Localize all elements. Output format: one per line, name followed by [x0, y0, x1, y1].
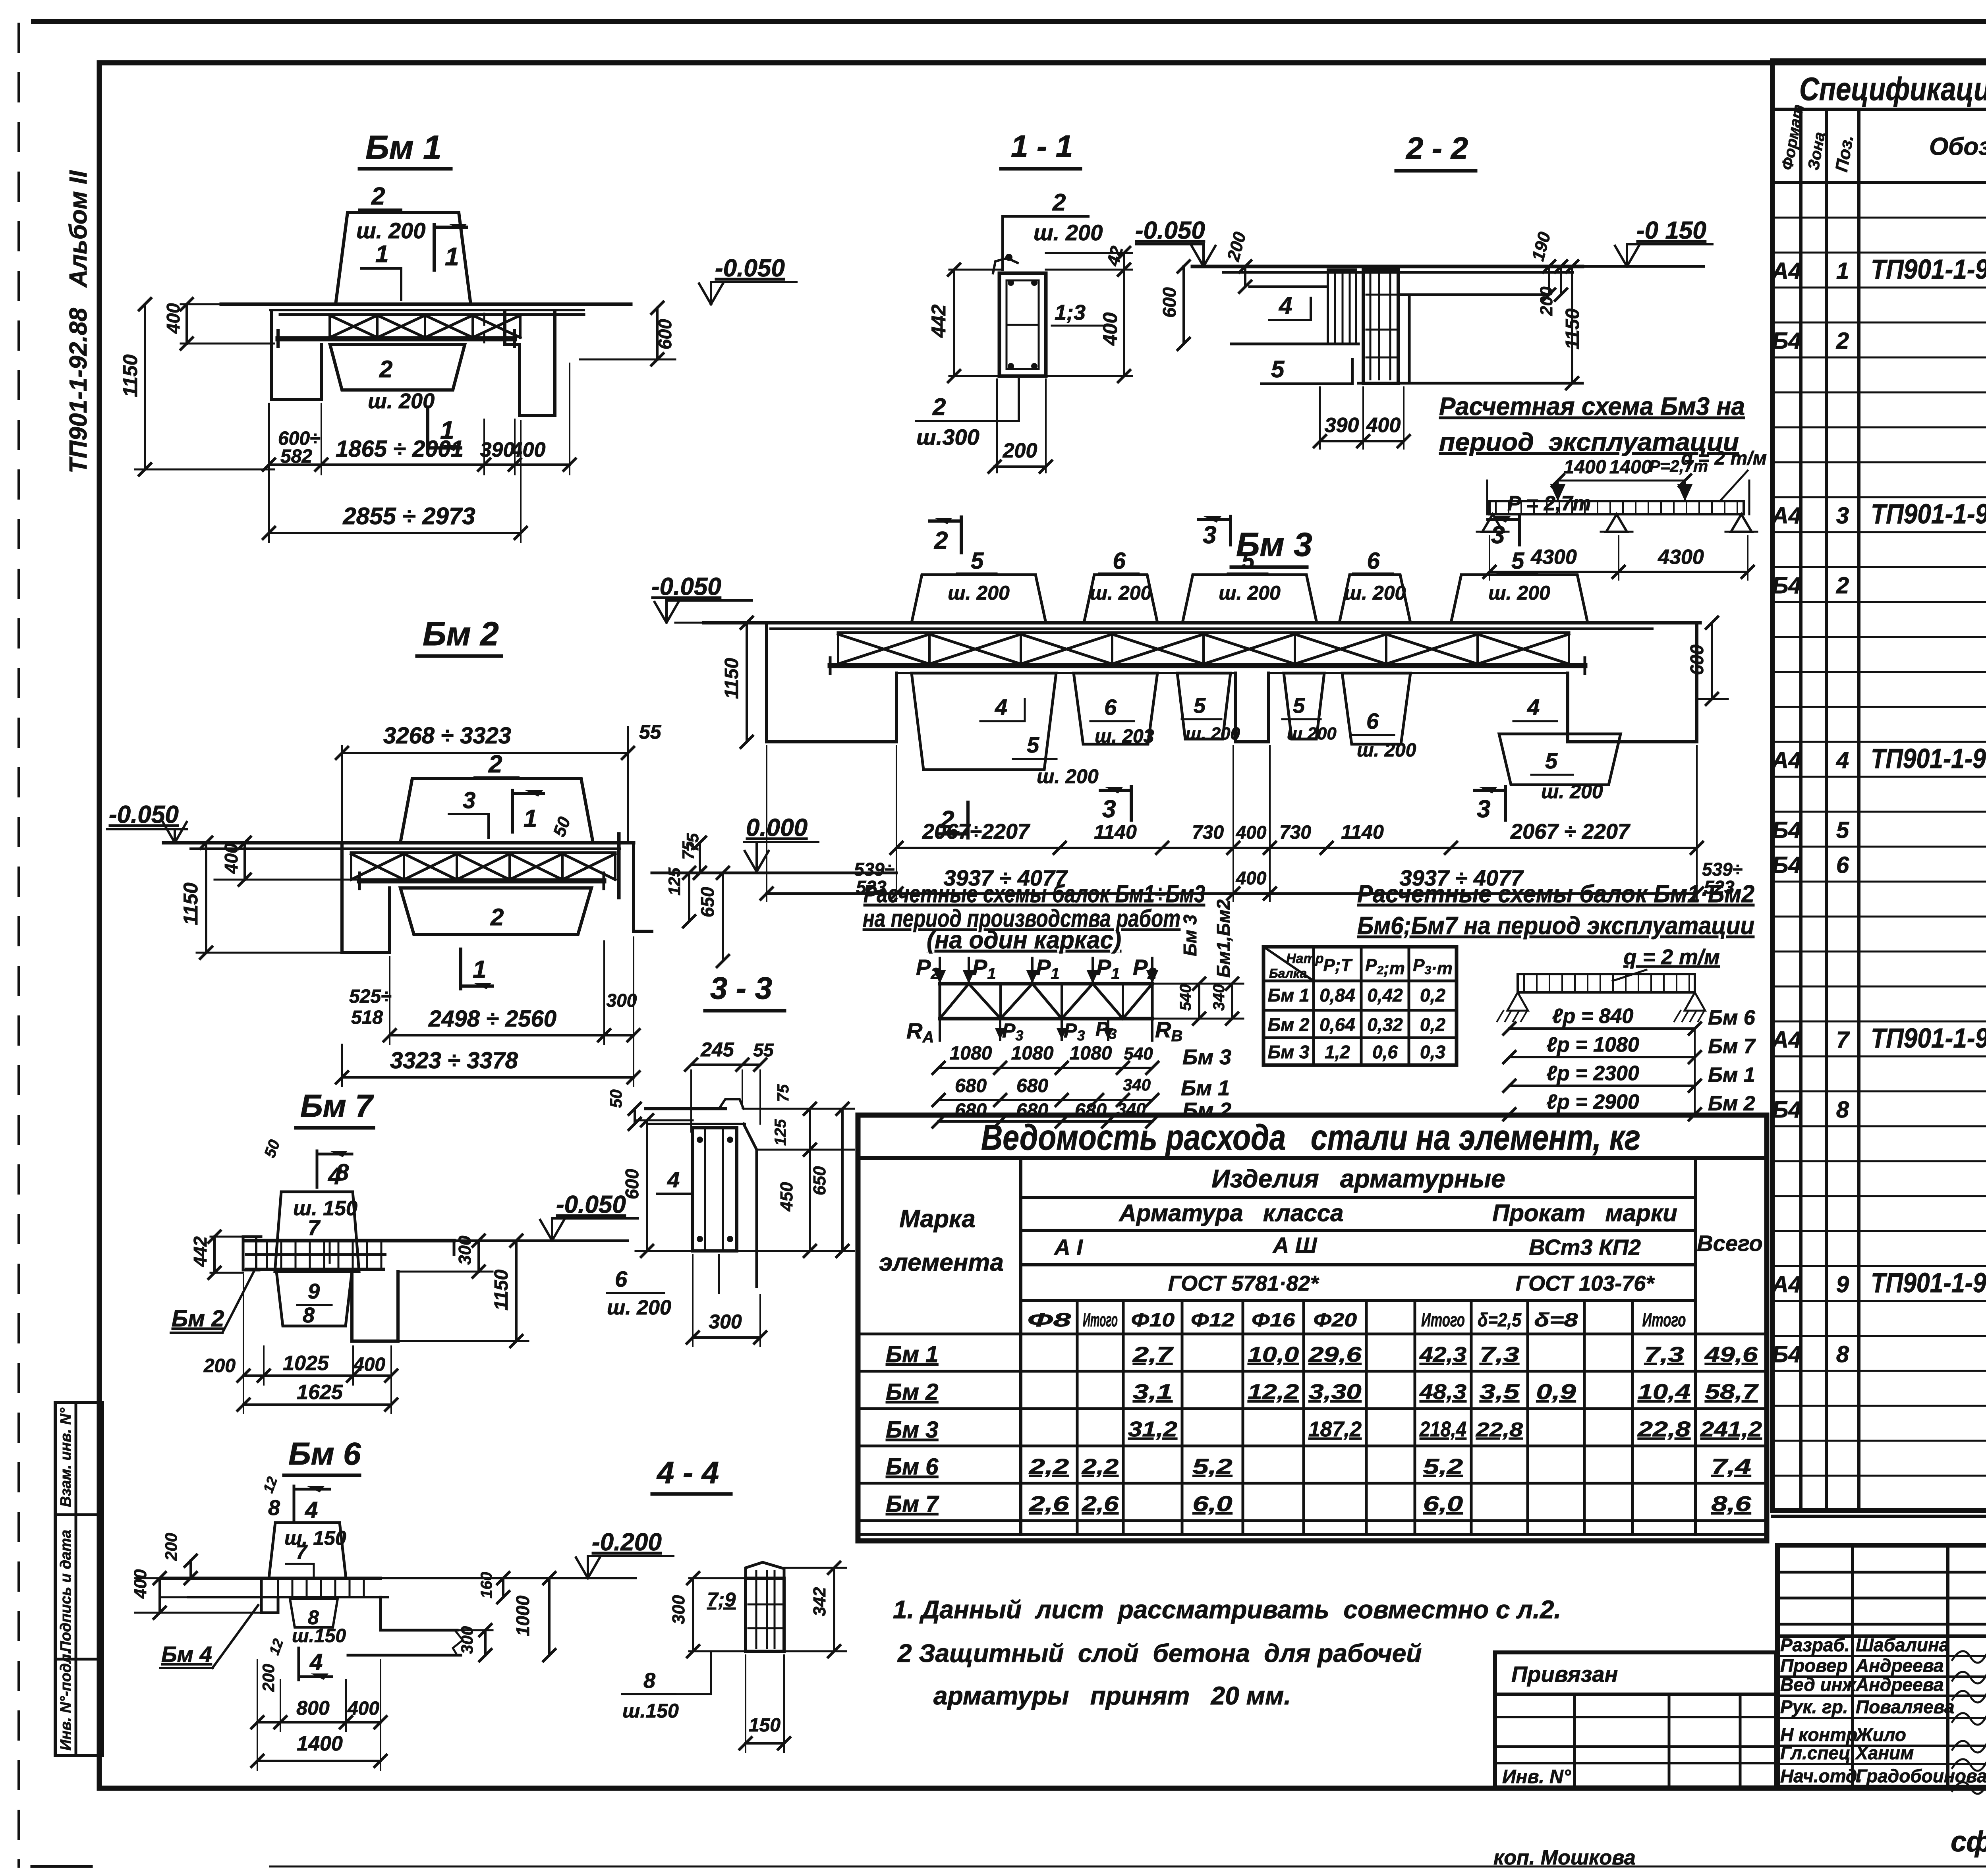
svg-text:4: 4: [667, 1167, 680, 1192]
svg-text:75: 75: [775, 1084, 792, 1102]
svg-text:29,6: 29,6: [1308, 1343, 1362, 1366]
svg-text:Б4: Б4: [1772, 328, 1801, 354]
svg-text:0,64: 0,64: [1319, 1014, 1355, 1035]
Bm3 truss diagonals: [838, 634, 929, 664]
svg-text:3,1: 3,1: [1133, 1380, 1173, 1404]
svg-text:4: 4: [1836, 747, 1849, 773]
svg-text:Бм 3: Бм 3: [1180, 915, 1200, 956]
svg-text:0,84: 0,84: [1319, 985, 1355, 1006]
svg-text:7,3: 7,3: [1644, 1343, 1684, 1366]
svg-text:ш. 200: ш. 200: [1344, 582, 1406, 604]
svg-text:9: 9: [1836, 1272, 1849, 1297]
Bm1 slab top line: [221, 303, 631, 306]
Cp dim rows: [1509, 1027, 1695, 1030]
svg-text:600: 600: [655, 319, 675, 349]
svg-text:ш. 200: ш. 200: [368, 389, 435, 413]
svg-text:7;9: 7;9: [707, 1588, 736, 1611]
svg-text:Инв. N°-подл.: Инв. N°-подл.: [58, 1650, 74, 1751]
3-3 top dims 245 55: [691, 1063, 760, 1066]
svg-text:Инв. N°: Инв. N°: [1502, 1766, 1571, 1787]
svg-text:42,3: 42,3: [1419, 1343, 1466, 1366]
Bm1 dim 400 left: [181, 303, 274, 305]
svg-text:3268 ÷ 3323: 3268 ÷ 3323: [383, 723, 511, 749]
svg-text:5: 5: [1242, 548, 1255, 574]
svg-text:400: 400: [1099, 312, 1121, 346]
Bm3 level -0.050: [665, 600, 668, 620]
Bm7 top mesh trapezoid: [275, 1192, 359, 1272]
svg-text:q = 2 т/м: q = 2 т/м: [1681, 448, 1767, 469]
svg-text:Расчетные схемы балок Бм1·Бм2: Расчетные схемы балок Бм1·Бм2: [1357, 880, 1754, 908]
svg-text:Бм1,Бм2: Бм1,Бм2: [1213, 899, 1234, 978]
4-4 dim 300 left: [692, 1578, 694, 1651]
svg-text:Итого: Итого: [1421, 1310, 1465, 1331]
steel consumption table Ведомость расхода стали: [858, 1115, 1767, 1541]
2-2 slab top line: [1192, 265, 1582, 268]
Bm3 truss bottom chord: [830, 663, 1585, 668]
svg-text:ш. 150: ш. 150: [293, 1197, 357, 1220]
svg-text:400: 400: [1236, 868, 1267, 888]
2-2 left slab bottom: [1250, 286, 1325, 288]
svg-text:5: 5: [1511, 548, 1524, 574]
svg-text:400: 400: [353, 1354, 385, 1375]
svg-text:Бм 1: Бм 1: [1708, 1063, 1755, 1087]
svg-text:ш. 200: ш. 200: [1357, 740, 1416, 761]
svg-text:5: 5: [1194, 694, 1206, 718]
3-3 bottom dim 300: [693, 1336, 760, 1339]
svg-text:-0.050: -0.050: [715, 255, 785, 282]
svg-text:2 - 2: 2 - 2: [1405, 131, 1468, 166]
svg-text:Бм 1: Бм 1: [1268, 985, 1310, 1006]
svg-text:А4: А4: [1771, 1027, 1801, 1053]
svg-text:-0.050: -0.050: [556, 1191, 626, 1218]
paper top edge line: [33, 19, 1986, 24]
Bm1 section flag 1 bottom: [426, 407, 429, 451]
Bm2 section flag 1 top: [511, 790, 514, 832]
1-1 dim 200: [996, 379, 998, 473]
svg-text:ш. 200: ш. 200: [1037, 765, 1099, 787]
svg-text:400: 400: [347, 1698, 379, 1719]
svg-text:Б4: Б4: [1772, 573, 1801, 598]
Bm1 top mesh trapezoid: [336, 212, 471, 304]
Bm1 bottom dims row2: [269, 532, 521, 534]
svg-text:q = 2 т/м: q = 2 т/м: [1623, 945, 1720, 969]
Bm6 bottom dims row2: [257, 1760, 381, 1762]
3-3 top slab lines: [646, 1107, 725, 1110]
svg-text:8,6: 8,6: [1712, 1492, 1752, 1516]
svg-text:Φ20: Φ20: [1313, 1310, 1357, 1331]
svg-text:300: 300: [607, 990, 637, 1011]
svg-text:ТП901-1-9 88-КЖИ1-С4: ТП901-1-9 88-КЖИ1-С4: [1871, 254, 1986, 285]
3-3 right slope: [744, 1124, 757, 1287]
svg-text:Провер: Провер: [1780, 1655, 1848, 1676]
P3 bottom loads: [999, 1019, 1001, 1040]
svg-text:3 - 3: 3 - 3: [710, 971, 772, 1006]
svg-text:1: 1: [524, 805, 537, 832]
svg-text:0,2: 0,2: [1420, 985, 1445, 1006]
svg-text:ш. 200: ш. 200: [1488, 582, 1550, 604]
svg-text:1: 1: [375, 241, 388, 267]
P-load truss scheme: [906, 899, 1243, 1127]
svg-text:ВСт3 КП2: ВСт3 КП2: [1529, 1235, 1641, 1260]
svg-text:ш. 200: ш. 200: [1219, 582, 1281, 604]
svg-text:Бм 2: Бм 2: [1182, 1098, 1231, 1122]
Bm6 right outline: [381, 1597, 457, 1630]
svg-text:3: 3: [1836, 503, 1849, 529]
svg-text:ТП901-1-9 88-КЖИ1-С5: ТП901-1-9 88-КЖИ1-С5: [1871, 498, 1986, 529]
svg-text:600: 600: [1687, 645, 1707, 675]
svg-text:49,6: 49,6: [1704, 1343, 1758, 1366]
svg-text:22,8: 22,8: [1637, 1417, 1690, 1441]
Bm6 stirrup ticks: [277, 1579, 279, 1596]
svg-text:2 Защитный слой бетона для: 2 Защитный слой бетона для рабочей: [897, 1639, 1422, 1668]
svg-text:540: 540: [1124, 1044, 1153, 1063]
svg-text:0,2: 0,2: [1420, 1014, 1445, 1035]
svg-text:Б4: Б4: [1772, 1341, 1801, 1367]
section 3-3: [607, 971, 854, 1346]
svg-text:241,2: 241,2: [1700, 1417, 1762, 1441]
svg-text:Бм 6: Бм 6: [886, 1454, 939, 1480]
svg-text:-0.050: -0.050: [651, 573, 721, 600]
Bm2 dim 1150 left: [205, 843, 207, 953]
Bm1 level -0.050: [710, 282, 712, 301]
svg-text:Φ12: Φ12: [1191, 1310, 1234, 1331]
Bm7 bottom dims row2: [243, 1403, 391, 1406]
svg-text:1150: 1150: [119, 354, 141, 397]
svg-text:ТП901-1-9 88-КЖИ1-С7: ТП901-1-9 88-КЖИ1-С7: [1871, 1023, 1986, 1054]
svg-text:1000: 1000: [512, 1595, 533, 1636]
svg-text:1 - 1: 1 - 1: [1011, 129, 1073, 164]
Bm2 bottom mesh trapezoid: [400, 888, 591, 934]
Bm2 truss top chord: [351, 851, 615, 854]
svg-text:1625: 1625: [297, 1381, 343, 1404]
2-2 right slab bottom: [1398, 293, 1545, 296]
svg-text:1140: 1140: [1094, 821, 1137, 843]
Bm7 right slab edge: [453, 1241, 456, 1255]
svg-text:600: 600: [1159, 287, 1180, 318]
svg-text:арматуры принят 20 мм.: арматуры принят 20 мм.: [933, 1681, 1291, 1710]
Bm6 top mesh trapezoid: [269, 1523, 346, 1578]
svg-text:342: 342: [810, 1587, 829, 1616]
svg-text:5: 5: [1271, 356, 1285, 382]
Bm3 bottom section flags: [966, 802, 970, 838]
svg-text:3,5: 3,5: [1480, 1380, 1520, 1404]
section 1-1: [916, 129, 1132, 473]
4-4 dim 150: [746, 1742, 784, 1745]
svg-text:450: 450: [777, 1182, 796, 1212]
left stamp strip boxes: [55, 1403, 102, 1756]
svg-text:2: 2: [1836, 573, 1849, 598]
Bm3 left small dims: [746, 623, 748, 742]
svg-text:518: 518: [351, 1007, 383, 1028]
svg-text:2: 2: [934, 527, 948, 554]
svg-text:Бм 1: Бм 1: [886, 1341, 938, 1367]
signature rows: [1777, 1655, 1986, 1657]
svg-text:Расчетная схема Бм3 на: Расчетная схема Бм3 на: [1439, 392, 1745, 421]
svg-text:48,3: 48,3: [1419, 1380, 1466, 1404]
svg-text:Бм 7: Бм 7: [1708, 1035, 1756, 1058]
P value table: [1263, 947, 1457, 1065]
svg-text:6: 6: [1836, 852, 1849, 878]
svg-text:-0.050: -0.050: [1135, 217, 1205, 244]
header grid: [1019, 1158, 1022, 1534]
svg-text:245: 245: [700, 1038, 734, 1061]
svg-text:6,0: 6,0: [1423, 1492, 1463, 1516]
svg-text:200: 200: [259, 1664, 278, 1692]
Bm3 top mesh trapezoids: [912, 575, 1046, 623]
truss dim row 680: [939, 1099, 1152, 1101]
svg-text:200: 200: [1003, 439, 1037, 462]
1-1 dims 42 and 400 right: [1046, 252, 1132, 254]
svg-text:1865 ÷ 2001: 1865 ÷ 2001: [336, 436, 464, 462]
3-3 main rect: [693, 1128, 737, 1251]
svg-text:125: 125: [772, 1119, 789, 1146]
svg-text:А4: А4: [1771, 503, 1801, 529]
svg-text:ℓр = 840: ℓр = 840: [1552, 1005, 1634, 1028]
Bm2 dim 400 left: [214, 842, 246, 844]
Bm2 truss diagonals: [351, 854, 404, 880]
svg-text:Вед инж: Вед инж: [1780, 1674, 1857, 1695]
svg-text:8: 8: [268, 1496, 280, 1520]
svg-text:ш. 150: ш. 150: [284, 1527, 346, 1549]
svg-text:Φ8: Φ8: [1027, 1310, 1071, 1331]
svg-text:0.000: 0.000: [746, 814, 808, 841]
2-2 dim 1150 right: [1571, 266, 1573, 383]
right rotated labels: [1152, 983, 1243, 985]
svg-text:(на один каркас): (на один каркас): [927, 926, 1121, 954]
svg-text:6: 6: [1113, 548, 1126, 574]
svg-text:200: 200: [1537, 286, 1556, 316]
svg-text:δ=2,5: δ=2,5: [1478, 1310, 1522, 1331]
svg-text:582: 582: [280, 446, 312, 467]
svg-text:2: 2: [371, 183, 385, 210]
Bm2 truss bottom chord: [359, 878, 604, 884]
Bm3 dim 600 right: [1711, 623, 1713, 699]
Bm2 left concrete block: [342, 843, 390, 953]
svg-text:5,2: 5,2: [1193, 1455, 1233, 1478]
truss diagonals: [940, 984, 1152, 1019]
svg-text:1025: 1025: [283, 1352, 329, 1375]
load strip: [1489, 501, 1744, 514]
2-2 bottom step line: [1358, 382, 1582, 385]
svg-text:Бм 1: Бм 1: [1181, 1076, 1230, 1100]
svg-text:650: 650: [697, 887, 718, 917]
Bm3 left end block: [767, 623, 896, 742]
svg-text:8: 8: [303, 1303, 315, 1327]
2-2 dim 190 right: [1548, 266, 1550, 295]
svg-text:ГОСТ 103-76*: ГОСТ 103-76*: [1516, 1272, 1656, 1295]
Bm3 middle pillar: [1236, 673, 1269, 742]
svg-text:Н контр: Н контр: [1780, 1724, 1857, 1745]
svg-text:0,32: 0,32: [1367, 1014, 1403, 1035]
svg-text:1: 1: [473, 956, 486, 983]
svg-text:55: 55: [639, 721, 662, 743]
svg-text:Б4: Б4: [1772, 852, 1801, 878]
Bm3 slab top line: [704, 621, 1700, 625]
3-3 top flange bump: [719, 1099, 744, 1109]
Bm6 level -0.200: [587, 1556, 589, 1575]
Bm7 bottom mesh trapezoid: [276, 1272, 352, 1326]
svg-text:600: 600: [622, 1169, 642, 1199]
2-2 level -0.150: [1626, 244, 1628, 263]
svg-text:4300: 4300: [1530, 546, 1577, 569]
svg-text:1150: 1150: [1562, 308, 1583, 349]
svg-text:540: 540: [1177, 984, 1194, 1011]
svg-text:442: 442: [190, 1236, 211, 1267]
svg-text:4: 4: [1279, 292, 1292, 319]
bottom outside thin line: [270, 1866, 1986, 1868]
beam Bm6 view: [131, 1436, 673, 1770]
Bm1 dim 600 right: [580, 359, 675, 361]
truss dim row 1080s: [939, 1067, 1152, 1069]
svg-text:3: 3: [1203, 521, 1216, 549]
svg-text:Изделия арматурные: Изделия арматурные: [1211, 1164, 1505, 1193]
Bm1 section flag 1 top: [433, 224, 436, 270]
Bm7 stirrup ticks: [266, 1241, 268, 1269]
svg-text:50: 50: [607, 1089, 625, 1108]
svg-text:ш. 200: ш. 200: [1090, 582, 1152, 604]
spec table header: [1799, 109, 1802, 1511]
section 2-2: [1135, 131, 1712, 449]
Bm7 left corbel: [243, 1237, 261, 1270]
svg-text:Спецификация к балкам Бм1÷Бм3: Спецификация к балкам Бм1÷Бм3;Бм6;Бм7.: [1799, 71, 1986, 107]
svg-text:4300: 4300: [1658, 546, 1704, 569]
2-2 left bottom 600 line: [1231, 343, 1358, 345]
svg-text:3,30: 3,30: [1309, 1380, 1362, 1404]
svg-text:Б4: Б4: [1772, 817, 1801, 843]
calc scheme Bm3 load diagram: [1477, 448, 1767, 580]
svg-text:ТП901-1-9 88’-КЖИ1-С6: ТП901-1-9 88’-КЖИ1-С6: [1871, 743, 1986, 774]
3-3 bottom ref line: [671, 1250, 747, 1252]
svg-text:Прокат марки: Прокат марки: [1492, 1200, 1677, 1226]
svg-text:2: 2: [379, 356, 392, 382]
q load scheme: [1497, 945, 1756, 1120]
svg-text:А Ш: А Ш: [1272, 1233, 1318, 1258]
svg-text:2,2: 2,2: [1029, 1455, 1069, 1478]
svg-text:400: 400: [221, 843, 241, 874]
svg-text:2: 2: [488, 751, 502, 778]
4-4 dim 342 right: [833, 1568, 835, 1651]
svg-text:Взам. инв. N°: Взам. инв. N°: [58, 1407, 74, 1507]
Bm6 slab top line: [161, 1577, 381, 1580]
svg-text:Бм 6: Бм 6: [288, 1436, 361, 1471]
Bm7 dim 1150 right: [515, 1241, 518, 1341]
title block: [1777, 1545, 1986, 1787]
svg-text:5: 5: [1545, 748, 1558, 773]
truss dim row 680-2: [939, 1120, 1152, 1123]
svg-text:0,6: 0,6: [1372, 1042, 1398, 1062]
svg-text:1,2: 1,2: [1325, 1042, 1350, 1062]
Bm3 bottom mesh teeth: [912, 673, 1056, 770]
svg-text:Арматура класса: Арматура класса: [1119, 1200, 1344, 1226]
Bm7 dim 442 left: [213, 1237, 216, 1273]
svg-text:800: 800: [296, 1697, 330, 1719]
svg-text:3: 3: [1477, 795, 1490, 823]
svg-text:Бм 1: Бм 1: [365, 129, 442, 166]
svg-text:Балка: Балка: [1269, 966, 1307, 980]
svg-text:δ=8: δ=8: [1534, 1310, 1578, 1331]
Bm3 slab second line: [771, 627, 1652, 630]
svg-text:10,0: 10,0: [1248, 1343, 1299, 1366]
svg-text:Ведомость расхода стали на: Ведомость расхода стали на элемент, кг: [981, 1118, 1640, 1158]
svg-text:150: 150: [749, 1715, 780, 1736]
Bm3 right end block: [1568, 623, 1697, 742]
beam Bm2 view: [107, 615, 896, 1086]
Bm1 left concrete block: [271, 311, 321, 400]
svg-text:340: 340: [1123, 1075, 1151, 1094]
svg-text:6: 6: [615, 1266, 628, 1291]
svg-text:Бм 2: Бм 2: [1708, 1092, 1755, 1115]
Bm6 section flag 4 bottom: [298, 1648, 300, 1680]
Bm7 bottom dims row1: [243, 1374, 391, 1377]
Bm1 bottom dims row1: [269, 463, 570, 466]
svg-text:650: 650: [810, 1166, 829, 1195]
svg-text:Ханим: Ханим: [1855, 1743, 1914, 1763]
svg-text:0,42: 0,42: [1367, 985, 1403, 1006]
span dims 4300 4300: [1489, 571, 1748, 573]
svg-text:2498 ÷ 2560: 2498 ÷ 2560: [428, 1006, 556, 1032]
svg-text:8: 8: [1836, 1341, 1849, 1367]
svg-text:5,2: 5,2: [1423, 1455, 1463, 1478]
Bm6 slab second line: [188, 1596, 388, 1598]
svg-text:1: 1: [445, 242, 459, 271]
svg-text:ш. 200: ш. 200: [1541, 780, 1603, 803]
svg-text:1080: 1080: [950, 1043, 992, 1064]
svg-text:1400: 1400: [1564, 457, 1606, 478]
svg-text:ш. 200: ш. 200: [948, 582, 1010, 604]
svg-text:Привязан: Привязан: [1511, 1662, 1618, 1687]
Bm3 bottom dims row1: [896, 847, 1697, 849]
svg-text:22,8: 22,8: [1476, 1419, 1523, 1441]
svg-text:400: 400: [131, 1569, 150, 1599]
3-3 dim 600 left: [646, 1120, 648, 1251]
svg-text:1080: 1080: [1070, 1043, 1112, 1064]
svg-text:1150: 1150: [491, 1269, 512, 1310]
2-2 dim 600 left: [1182, 266, 1185, 344]
Bm2 bottom dims row1: [390, 1034, 634, 1036]
svg-text:1150: 1150: [721, 658, 742, 699]
svg-text:400: 400: [1236, 822, 1267, 843]
1-1 dim 442: [949, 269, 1001, 271]
svg-text:4: 4: [1527, 695, 1540, 720]
svg-text:2067÷2207: 2067÷2207: [922, 820, 1031, 843]
svg-text:55: 55: [753, 1040, 774, 1060]
svg-text:Нач.отд.: Нач.отд.: [1780, 1766, 1862, 1786]
Bm3 truss top chord: [838, 631, 1569, 634]
svg-text:ш.150: ш.150: [622, 1700, 679, 1722]
Bm7 section flag 4 top: [316, 1151, 319, 1187]
Bm1 bottom mesh trapezoid: [330, 345, 465, 390]
svg-text:2: 2: [932, 394, 946, 420]
Bm7 slab second line: [246, 1253, 385, 1256]
beam Bm3 view: [651, 516, 1743, 967]
svg-text:3: 3: [1102, 795, 1116, 823]
svg-text:Итого: Итого: [1083, 1310, 1118, 1331]
svg-text:5: 5: [1836, 817, 1849, 843]
truss chords: [940, 982, 1152, 986]
svg-text:4 - 4: 4 - 4: [656, 1455, 719, 1490]
spec table title row: [1772, 61, 1986, 1511]
svg-text:6,0: 6,0: [1193, 1492, 1233, 1516]
2-2 dim 200 left top: [1244, 266, 1246, 287]
svg-text:Φ10: Φ10: [1131, 1310, 1175, 1331]
svg-text:7: 7: [1836, 1027, 1850, 1053]
svg-text:31,2: 31,2: [1128, 1417, 1177, 1441]
4-4 section rect: [746, 1562, 784, 1578]
svg-text:Жило: Жило: [1855, 1724, 1906, 1745]
svg-text:340: 340: [1210, 984, 1228, 1011]
svg-text:200: 200: [203, 1355, 236, 1376]
svg-text:390: 390: [480, 438, 515, 461]
